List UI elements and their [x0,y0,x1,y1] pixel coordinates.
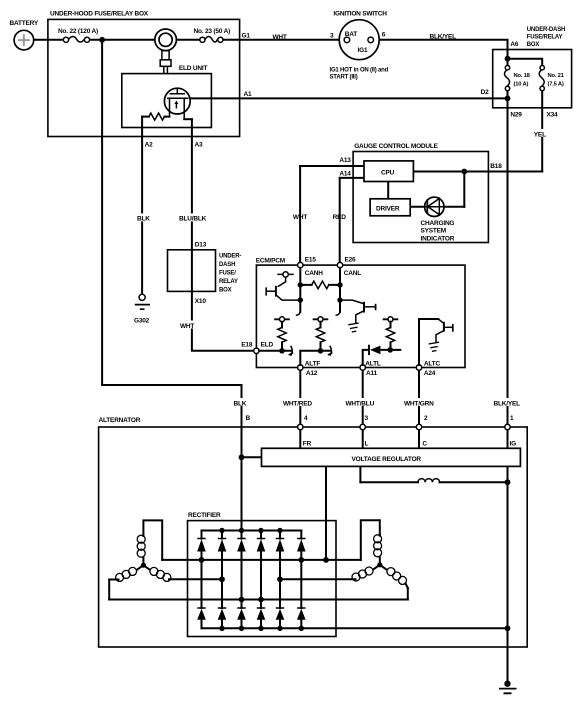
svg-text:BATTERY: BATTERY [10,20,39,27]
svg-text:A1: A1 [244,91,252,98]
svg-text:BAT: BAT [345,31,358,38]
svg-text:START (III): START (III) [330,75,358,81]
svg-text:RECTIFIER: RECTIFIER [188,512,221,519]
svg-text:3: 3 [365,415,369,422]
svg-text:A12: A12 [306,370,318,377]
svg-text:ALTC: ALTC [424,361,441,368]
svg-text:3: 3 [330,33,334,40]
svg-text:A13: A13 [339,157,351,164]
svg-text:ALTF: ALTF [305,361,321,368]
svg-text:E18: E18 [241,341,253,348]
svg-text:FUSE/RELAY: FUSE/RELAY [527,35,563,41]
svg-text:DASH: DASH [219,262,235,268]
svg-text:G302: G302 [134,318,150,325]
svg-text:E15: E15 [305,257,317,264]
svg-text:4: 4 [304,415,308,422]
svg-text:D2: D2 [481,89,489,96]
svg-text:N29: N29 [510,111,522,118]
svg-text:B18: B18 [490,163,502,170]
svg-text:YEL: YEL [534,131,546,138]
svg-text:2: 2 [424,415,428,422]
svg-text:BLK: BLK [137,215,150,222]
svg-text:DRIVER: DRIVER [376,206,400,213]
svg-text:BOX: BOX [527,42,540,48]
svg-text:BLK: BLK [234,400,247,407]
svg-text:D13: D13 [195,241,207,248]
svg-text:WHT/BLU: WHT/BLU [346,400,375,407]
svg-text:WHT/RED: WHT/RED [283,400,312,407]
svg-text:A14: A14 [339,171,351,178]
svg-text:SYSTEM: SYSTEM [421,228,447,235]
svg-text:IG1 HOT in ON (II) and: IG1 HOT in ON (II) and [330,67,389,73]
svg-text:A11: A11 [366,370,378,377]
svg-text:L: L [365,440,369,447]
svg-text:1: 1 [510,415,514,422]
svg-text:GAUGE CONTROL MODULE: GAUGE CONTROL MODULE [354,143,438,150]
svg-text:FUSE/: FUSE/ [219,271,236,277]
svg-text:UNDER-DASH: UNDER-DASH [527,27,565,33]
svg-text:CHARGING: CHARGING [421,220,455,227]
svg-text:VOLTAGE REGULATOR: VOLTAGE REGULATOR [352,456,422,463]
svg-text:ELD UNIT: ELD UNIT [179,65,208,72]
svg-text:WHT: WHT [273,34,287,41]
svg-text:UNDER-: UNDER- [219,254,241,260]
svg-text:A2: A2 [145,142,153,149]
svg-text:RED: RED [333,214,347,221]
svg-text:IGNITION SWITCH: IGNITION SWITCH [333,10,387,17]
svg-text:(10 A): (10 A) [514,82,529,88]
svg-text:ALTERNATOR: ALTERNATOR [99,417,141,424]
svg-text:RELAY: RELAY [219,279,238,285]
svg-text:UNDER-HOOD FUSE/RELAY BOX: UNDER-HOOD FUSE/RELAY BOX [50,11,149,18]
svg-text:No. 22 (120 A): No. 22 (120 A) [58,28,98,35]
svg-text:CANH: CANH [305,270,323,277]
svg-text:WHT: WHT [293,214,307,221]
svg-text:No. 23 (50 A): No. 23 (50 A) [194,28,231,35]
svg-text:B: B [246,415,251,422]
svg-text:A3: A3 [195,142,203,149]
svg-text:BOX: BOX [219,288,232,294]
svg-text:BLK/YEL: BLK/YEL [494,400,521,407]
svg-text:A24: A24 [424,370,436,377]
svg-text:IG: IG [510,440,517,447]
svg-text:No. 18: No. 18 [514,73,531,79]
svg-text:IG1: IG1 [358,47,368,54]
svg-text:ECM/PCM: ECM/PCM [256,258,285,265]
svg-text:6: 6 [382,31,386,38]
svg-text:G1: G1 [242,33,251,40]
svg-text:WHT: WHT [180,323,194,330]
svg-text:BLU/BLK: BLU/BLK [179,215,207,222]
svg-text:FR: FR [303,440,312,447]
svg-text:WHT/GRN: WHT/GRN [404,400,434,407]
svg-text:A6: A6 [510,41,518,48]
svg-text:No. 21: No. 21 [548,73,565,79]
svg-text:(7.5 A): (7.5 A) [548,82,564,88]
svg-text:CANL: CANL [344,270,361,277]
svg-text:E26: E26 [345,257,357,264]
svg-text:BLK/YEL: BLK/YEL [430,33,457,40]
svg-text:X10: X10 [195,298,207,305]
svg-text:ELD: ELD [261,341,274,348]
svg-text:C: C [422,440,427,447]
svg-text:ALTL: ALTL [365,361,381,368]
svg-text:CPU: CPU [381,169,395,176]
svg-text:INDICATOR: INDICATOR [421,235,455,242]
svg-text:X34: X34 [547,111,559,118]
